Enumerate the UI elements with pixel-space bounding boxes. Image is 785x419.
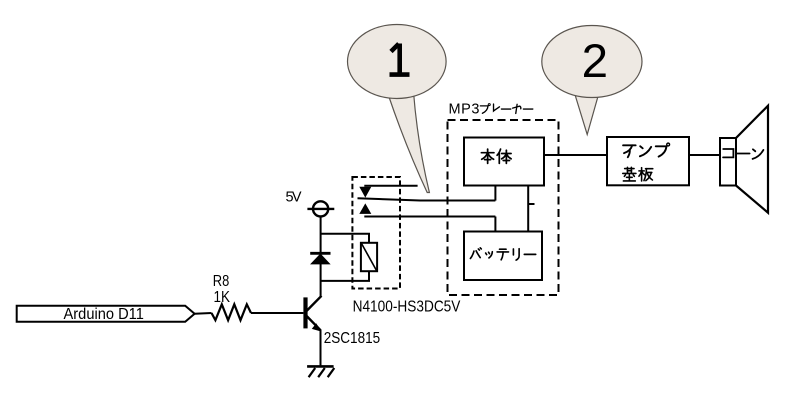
svg-text:2SC1815: 2SC1815 [324,330,381,347]
wire: resistor to base [251,312,303,314]
wire: amp board to speaker [689,154,720,156]
ground [307,366,334,377]
svg-text:MP3: MP3 [449,102,480,118]
wire: 5V rail down to collector [320,217,322,297]
relay N4100 dashed box [352,177,400,289]
resistor R8 1K [212,273,252,320]
wire: relay contact blade to 本体 (upper) [358,198,496,200]
wire: relay contact to battery (lower) [364,216,495,218]
svg-text:2: 2 [582,35,608,88]
relay contact: upper arrow (down) [359,187,371,198]
svg-text:N4100-HS3DC5V: N4100-HS3DC5V [353,299,461,316]
speaker コーン (cone) [720,106,768,213]
wire: 本体 to amp board [544,154,607,156]
relay contact: lower arrow (up) [359,203,371,214]
callout balloon 1 [348,25,447,193]
wire: 本体 pin A down [494,186,496,201]
stub tick on pin B wire [528,203,534,205]
relay coil [321,234,378,281]
relay contact: fixed lead (top stub) [364,185,417,187]
wire: 本体 pin B to battery [527,186,529,232]
diode D1 (flyback, pointing up) [310,253,330,264]
wire: emitter down [320,330,322,367]
svg-text:Arduino D11: Arduino D11 [64,306,144,323]
svg-text:5V: 5V [286,190,302,206]
svg-text:R8: R8 [213,273,230,290]
wire: tag to resistor [195,312,212,315]
svg-text:1K: 1K [214,289,231,306]
amp board box (アンプ基板) [607,137,689,185]
net tag Arduino D11 [17,306,195,323]
label MP3 player (MP3プレーヤー) [449,102,533,118]
transistor Q1 2SC1815 (NPN) [303,296,380,347]
callout balloon 2 [542,26,642,135]
MP3 player dashed box [448,120,559,295]
wire: battery pin up [494,217,496,232]
box バッテリー (battery) [464,232,542,281]
box 本体 (player main unit) [464,138,544,186]
power 5V [286,190,335,217]
